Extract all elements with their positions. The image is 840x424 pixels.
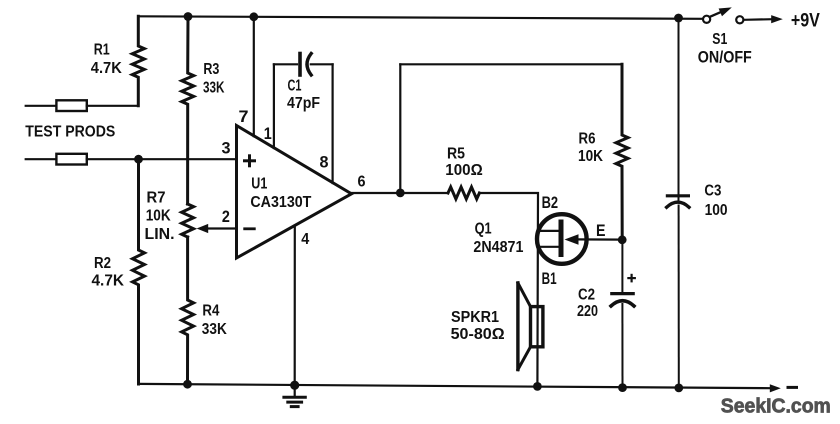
wire S1 to +9V xyxy=(745,18,773,21)
svg-text:CA3130T: CA3130T xyxy=(250,194,311,211)
bottom rail arrowhead xyxy=(770,384,781,392)
op-amp minus sign xyxy=(245,227,255,230)
svg-text:R5: R5 xyxy=(447,146,465,163)
C2 plus sign xyxy=(628,275,634,281)
wire pin 8 xyxy=(332,64,334,183)
capacitor C3 xyxy=(678,18,680,200)
resistor R1 xyxy=(132,16,144,106)
svg-text:50-80Ω: 50-80Ω xyxy=(451,326,505,343)
node bottom rail / C2 xyxy=(618,383,627,392)
svg-text:100Ω: 100Ω xyxy=(445,162,483,179)
node top rail / C3 xyxy=(674,14,683,23)
svg-text:SPKR1: SPKR1 xyxy=(451,309,499,326)
speaker SPKR1 xyxy=(531,307,543,347)
capacitor C2 xyxy=(621,240,623,294)
wire Q1 B2 lead xyxy=(538,230,559,232)
svg-text:LIN.: LIN. xyxy=(145,226,175,243)
resistor R6 xyxy=(616,64,628,240)
Q1 emitter arrowhead xyxy=(565,234,579,245)
svg-text:R6: R6 xyxy=(579,131,596,148)
wire Q1 emitter xyxy=(576,238,622,240)
svg-text:4.7K: 4.7K xyxy=(92,273,125,290)
wire test prod 2 / pin 3 input xyxy=(26,158,57,160)
+9V arrowhead xyxy=(771,15,783,23)
svg-text:S1: S1 xyxy=(712,31,727,48)
svg-text:47pF: 47pF xyxy=(287,95,320,112)
node test prod 2 / R2 xyxy=(134,155,143,164)
svg-text:B2: B2 xyxy=(542,193,559,212)
resistor R3 xyxy=(182,17,194,205)
svg-text:U1: U1 xyxy=(251,176,267,193)
svg-text:33K: 33K xyxy=(203,79,225,96)
wire Q1 B1 lead xyxy=(538,246,559,248)
test prod body 1 xyxy=(56,100,86,111)
node bottom rail / speaker xyxy=(533,382,542,391)
wire bottom ground rail xyxy=(139,384,771,388)
capacitor C1 xyxy=(274,63,297,65)
svg-text:6: 6 xyxy=(358,174,366,191)
potentiometer R7 xyxy=(182,204,194,237)
svg-text:C3: C3 xyxy=(704,183,721,200)
op-amp plus sign xyxy=(245,156,255,166)
wire pin 1 xyxy=(273,64,275,148)
wire top supply rail xyxy=(138,16,702,19)
test prod body 2 xyxy=(56,154,86,165)
node emitter / R6 / C2 xyxy=(618,235,627,244)
svg-text:Q1: Q1 xyxy=(475,221,492,238)
wire R5 to Q1 B2 xyxy=(479,193,538,386)
svg-text:C2: C2 xyxy=(578,287,595,304)
node bottom rail / pin4 ground xyxy=(290,381,299,390)
resistor R4 xyxy=(182,237,194,384)
node bottom rail / R4 xyxy=(183,380,192,389)
resistor R5 xyxy=(448,187,479,199)
svg-text:+9V: +9V xyxy=(791,9,820,31)
svg-text:100: 100 xyxy=(705,202,728,219)
wire feedback vertical xyxy=(399,64,401,193)
Q1 base bar xyxy=(559,222,564,255)
wire pin 4 xyxy=(294,226,296,385)
svg-text:2: 2 xyxy=(222,207,230,226)
switch S1 xyxy=(703,16,710,23)
op-amp U1 triangle xyxy=(237,126,352,259)
svg-text:C1: C1 xyxy=(288,78,302,95)
R7 wiper arrowhead xyxy=(197,224,209,233)
svg-text:R1: R1 xyxy=(94,42,110,59)
svg-text:B1: B1 xyxy=(542,269,557,288)
svg-text:R2: R2 xyxy=(94,255,111,272)
node top rail / pin7 xyxy=(249,12,258,21)
node top rail / R3 xyxy=(184,12,193,21)
wire test prod 1 xyxy=(26,105,57,107)
resistor R2 xyxy=(133,159,145,384)
svg-text:10K: 10K xyxy=(578,148,604,165)
svg-text:2N4871: 2N4871 xyxy=(473,239,523,256)
svg-text:1: 1 xyxy=(264,124,272,143)
bottom rail minus dash xyxy=(788,386,797,389)
svg-text:8: 8 xyxy=(320,153,329,172)
wire op-amp output pin 6 xyxy=(352,192,449,194)
transistor Q1 body xyxy=(537,214,587,264)
svg-text:TEST PRODS: TEST PRODS xyxy=(25,123,115,140)
node output / feedback xyxy=(396,189,405,198)
svg-text:10K: 10K xyxy=(146,207,172,224)
svg-text:R3: R3 xyxy=(203,61,219,78)
wire pin 7 xyxy=(253,17,255,136)
svg-text:4: 4 xyxy=(301,231,309,248)
wire feedback top horizontal xyxy=(400,63,622,65)
svg-text:E: E xyxy=(596,221,606,240)
svg-text:R4: R4 xyxy=(202,303,219,320)
svg-text:ON/OFF: ON/OFF xyxy=(698,48,752,67)
svg-text:33K: 33K xyxy=(202,321,228,338)
svg-text:7: 7 xyxy=(239,107,249,126)
svg-text:220: 220 xyxy=(577,303,598,320)
wire R7 wiper to pin 2 xyxy=(207,227,237,229)
ground symbol xyxy=(294,385,296,396)
svg-text:4.7K: 4.7K xyxy=(91,60,123,77)
svg-text:SeekIC.com: SeekIC.com xyxy=(721,396,831,418)
svg-text:3: 3 xyxy=(222,139,231,158)
node bottom rail / C3 xyxy=(674,384,683,393)
svg-text:R7: R7 xyxy=(147,189,166,206)
